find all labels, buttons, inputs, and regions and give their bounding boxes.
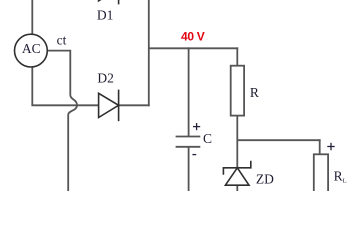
svg-text:L: L: [343, 177, 347, 184]
svg-text:D2: D2: [97, 70, 114, 85]
svg-text:R: R: [250, 85, 259, 100]
svg-text:ZD: ZD: [256, 171, 274, 186]
svg-text:ct: ct: [57, 33, 67, 48]
svg-text:D1: D1: [97, 8, 114, 23]
svg-text:R: R: [334, 169, 343, 184]
svg-text:AC: AC: [22, 41, 41, 56]
svg-text:40 V: 40 V: [181, 30, 205, 44]
svg-text:C: C: [203, 131, 212, 146]
